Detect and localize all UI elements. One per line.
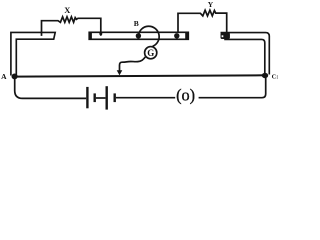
jockey arrowhead: [117, 70, 123, 75]
middle strip left end cap: [89, 32, 92, 40]
right strip left end cap with terminal blob: [221, 33, 230, 39]
middle copper strip: [89, 32, 188, 39]
galvanometer arc wire from B: [138, 26, 159, 46]
node A blob: [12, 74, 18, 80]
galvanometer G circle: [145, 47, 157, 59]
middle strip right end cap: [185, 32, 188, 40]
node C blob: [262, 73, 268, 78]
right copper strip outer edge: [221, 33, 270, 75]
svg-text:X: X: [64, 5, 71, 15]
wire between cells: [96, 97, 106, 99]
Y right terminal dot on right strip: [224, 33, 229, 38]
svg-text:G: G: [147, 48, 154, 58]
svg-text:B: B: [134, 19, 139, 28]
resistor Y wiring with zigzag: [178, 10, 227, 33]
jockey wire from G: [120, 57, 146, 71]
svg-text:C:: C:: [272, 73, 279, 80]
node B dot: [136, 33, 141, 38]
svg-text:A: A: [1, 72, 7, 81]
bridge wire A to C: [14, 75, 264, 76]
right copper strip inner edge: [224, 39, 265, 74]
battery cell 1 short plate: [93, 93, 95, 102]
battery cell 2 short plate: [113, 93, 115, 102]
battery cell 2 long plate: [105, 86, 107, 109]
svg-text:(o): (o): [176, 86, 195, 105]
Y left terminal dot on middle strip: [174, 33, 179, 38]
left copper strip (L-shaped, A post): [11, 32, 55, 75]
wire A down to battery: [15, 79, 87, 99]
battery cell 1 long plate: [86, 87, 88, 108]
X right terminal nub on middle strip: [99, 32, 102, 35]
wire key to C: [199, 78, 266, 98]
svg-text:Y: Y: [208, 0, 214, 9]
resistor X wiring with zigzag: [42, 17, 101, 36]
wire battery to key: [116, 97, 175, 99]
